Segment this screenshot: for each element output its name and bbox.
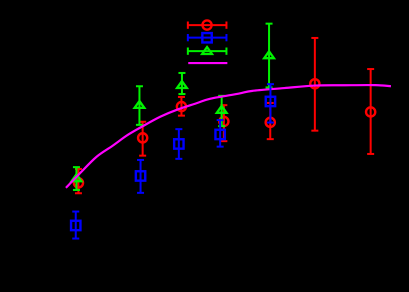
red data point 1 marker (open circle) <box>74 178 83 187</box>
green data point 5 marker (open triangle) <box>264 51 274 58</box>
blue data point 5 marker (open square) <box>266 97 275 106</box>
blue data point 2 error bar <box>137 160 144 193</box>
red data point 5 error bar <box>267 103 274 139</box>
green data point 1 error bar <box>73 167 80 190</box>
blue data point 1 marker (open square) <box>71 221 80 230</box>
legend red entry <box>188 22 227 29</box>
blue data point 1 error bar <box>72 212 79 239</box>
blue data point 4 error bar <box>217 120 224 147</box>
legend red marker (open circle) <box>202 20 211 29</box>
red data point 5 marker (open circle) <box>266 118 275 127</box>
green data point 3 marker (open triangle) <box>177 81 187 88</box>
red data point 6 marker (open circle) <box>310 79 319 88</box>
blue data point 2 marker (open square) <box>136 171 145 180</box>
green data point 2 marker (open triangle) <box>135 101 145 108</box>
green data point 3 error bar <box>178 73 185 94</box>
legend blue marker (open square) <box>202 33 211 42</box>
blue data point 4 marker (open square) <box>215 130 224 139</box>
red data point 7 marker (open circle) <box>366 107 375 116</box>
blue data point 5 error bar <box>267 84 274 122</box>
legend green marker (open triangle) <box>202 47 212 54</box>
magenta fit curve <box>66 85 391 188</box>
red data point 4 marker (open circle) <box>219 117 228 126</box>
legend blue entry <box>188 34 227 41</box>
green data point 4 marker (open triangle) <box>217 106 227 113</box>
green data point 1 marker (open triangle) <box>72 174 82 181</box>
red data point 2 marker (open circle) <box>138 133 147 142</box>
blue data point 3 error bar <box>175 129 182 159</box>
red data point 1 error bar <box>75 169 82 193</box>
red data point 4 error bar <box>220 105 227 141</box>
legend magenta curve entry <box>188 62 227 64</box>
red data point 6 error bar <box>311 38 318 131</box>
green data point 4 error bar <box>218 96 225 126</box>
red data point 3 marker (open circle) <box>177 102 186 111</box>
blue data point 3 marker (open square) <box>174 139 183 148</box>
green data point 2 error bar <box>136 86 143 125</box>
red data point 7 error bar <box>367 69 374 154</box>
red data point 3 error bar <box>178 97 185 116</box>
legend green entry <box>188 48 227 55</box>
green data point 5 error bar <box>266 24 273 88</box>
red data point 2 error bar <box>139 122 146 156</box>
